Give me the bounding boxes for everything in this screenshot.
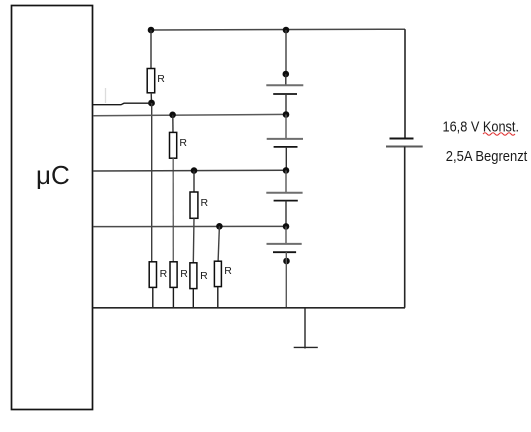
wire 1 from U1 to node B [93,103,152,105]
svg-text:R: R [200,270,208,282]
microcontroller U1 box [12,6,93,410]
wire R6 bottom lead [192,289,194,308]
node A (top rail / R1) [148,27,155,34]
wire stack segment 2 [285,74,287,85]
svg-text:R: R [157,73,165,85]
resistor R7 (bottom row 4) [214,261,221,286]
battery cell B4 [267,244,302,252]
svg-text:R: R [224,265,232,277]
wire R4 bottom lead [152,287,154,307]
wire R1 top lead [150,30,152,69]
wire stack segment 7 [285,201,287,227]
svg-text:μC: μC [36,160,70,190]
svg-text:2,5A Begrenzt: 2,5A Begrenzt [446,149,528,165]
battery cell B1 [266,85,303,94]
wire stack segment 5 [285,147,287,171]
wire 3 from U1 to battery stack [93,169,286,172]
resistor R6 (bottom row 3) [190,263,197,289]
node F (stack top) [283,27,290,34]
battery cell B3 [266,193,302,201]
spellcheck squiggle under Konst. [483,133,515,135]
resistor R3 [190,192,198,218]
wire stack segment 8 [285,226,287,244]
wire R1 bottom lead [150,93,152,103]
node D (wire3 / R3) [191,167,198,174]
svg-text:R: R [160,268,168,280]
wire top rail [151,28,405,31]
wire stack segment 6 [285,170,287,192]
wire vertical chain 1 (node B down to R4) [151,103,153,262]
wire R7 top lead [218,226,219,261]
node H (wire2 / stack) [283,111,290,118]
svg-text:R: R [180,268,188,280]
resistor R2 [170,132,177,158]
node E (wire4 / R7 lead) [216,223,223,230]
wire vertical chain 2 (R2 down to R5) [172,158,174,262]
resistor R5 (bottom row 2) [170,262,177,288]
wire right branch top [404,29,406,138]
wire 2 from U1 to battery stack [93,114,286,115]
wire stack segment 3 [285,94,287,115]
svg-text:R: R [201,197,209,209]
wire R3 top lead [193,171,195,192]
svg-text:R: R [179,137,187,149]
node B (wire1 / R1 bottom) [148,100,155,107]
resistor R4 (bottom row 1) [149,262,156,288]
artifact stub (faint) [105,88,107,103]
node K (stack bottom tap) [283,258,290,265]
wire vertical chain 3 (R3 down to R6) [192,218,195,262]
node C (wire2 / R2) [169,112,176,119]
wire R7 bottom lead [217,287,219,308]
wire stack segment 1 [285,30,287,74]
wire stack segment 4 [285,115,287,139]
wire R5 bottom lead [172,287,174,307]
battery cell B2 [267,139,303,147]
node J (wire4 / stack) [283,223,290,230]
wire R2 top lead [172,115,174,133]
voltage source V1 (16,8V / 2,5A) [386,139,423,147]
node G [283,71,290,78]
wire 4 from U1 to battery stack [93,225,286,227]
ground [294,308,318,349]
wire bottom rail [93,307,405,309]
resistor R1 [147,69,155,93]
wire stack segment 9 [285,252,287,308]
wire right branch bottom [404,147,406,308]
node I (wire3 / stack) [283,167,290,174]
